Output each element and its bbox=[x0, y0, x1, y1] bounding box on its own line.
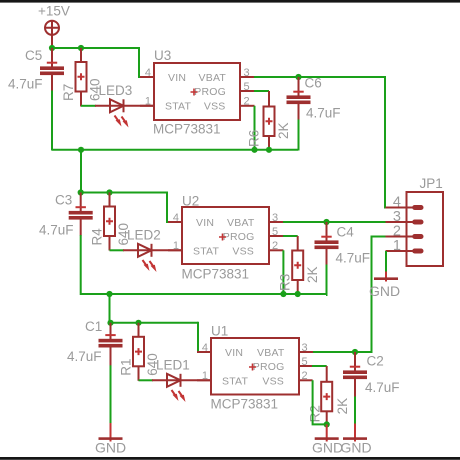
wire to U3 pin 4 bbox=[139, 47, 141, 77]
svg-text:LED1: LED1 bbox=[156, 358, 190, 373]
node junction +15V/C5 bbox=[49, 45, 55, 51]
LED3 bbox=[95, 83, 154, 128]
svg-text:VBAT: VBAT bbox=[257, 347, 285, 359]
svg-text:VIN: VIN bbox=[225, 347, 243, 359]
wire C3 bottom bbox=[81, 235, 110, 294]
ground below JP1 pin1 bbox=[369, 272, 400, 299]
svg-text:R7: R7 bbox=[61, 84, 76, 101]
node junction R7 top bbox=[78, 45, 84, 51]
svg-text:2: 2 bbox=[244, 96, 250, 108]
svg-text:VSS: VSS bbox=[262, 375, 284, 387]
svg-text:3: 3 bbox=[302, 342, 308, 354]
svg-text:R6: R6 bbox=[247, 130, 262, 147]
ground below C2 bbox=[340, 424, 371, 456]
svg-text:VIN: VIN bbox=[196, 217, 214, 229]
svg-text:1: 1 bbox=[173, 240, 179, 252]
ground below R2 bbox=[312, 424, 343, 455]
node junction C6 bbox=[295, 74, 301, 80]
svg-text:MCP73831: MCP73831 bbox=[211, 396, 279, 411]
capacitor C2 4.7uF bbox=[343, 352, 400, 397]
svg-text:STAT: STAT bbox=[165, 100, 191, 112]
LED2 bbox=[123, 228, 182, 273]
wire U1 VIN rail bbox=[111, 322, 199, 324]
op-amp U1 MCP73831 bbox=[197, 324, 313, 412]
svg-text:PROG: PROG bbox=[253, 361, 285, 373]
svg-text:STAT: STAT bbox=[222, 375, 248, 387]
svg-text:R2: R2 bbox=[308, 405, 323, 422]
capacitor C6 4.7uF bbox=[287, 76, 341, 121]
svg-text:2K: 2K bbox=[335, 398, 350, 415]
svg-text:VBAT: VBAT bbox=[227, 217, 255, 229]
svg-text:4.7uF: 4.7uF bbox=[365, 380, 400, 395]
resistor R1 640 bbox=[119, 323, 161, 381]
svg-text:LED3: LED3 bbox=[99, 83, 133, 98]
svg-text:C6: C6 bbox=[305, 76, 322, 91]
node junction R6/rail bbox=[266, 147, 272, 153]
svg-text:STAT: STAT bbox=[193, 245, 219, 257]
wire R7 to LED3 bbox=[81, 105, 96, 107]
wire JP1 pin1 to ground bbox=[385, 251, 387, 272]
wire U3 VSS rail bbox=[52, 149, 298, 151]
svg-text:R1: R1 bbox=[119, 359, 134, 376]
resistor R4 640 bbox=[90, 193, 132, 251]
wire C2 bottom bbox=[354, 397, 356, 424]
svg-text:GND: GND bbox=[340, 439, 371, 455]
node junction R4 top bbox=[106, 189, 112, 195]
wire to U1 pin 4 bbox=[198, 322, 200, 352]
svg-text:5: 5 bbox=[244, 81, 250, 93]
svg-text:4: 4 bbox=[202, 342, 208, 354]
node junction R1 top bbox=[135, 320, 141, 326]
wire U1 pin5 bbox=[312, 365, 327, 367]
svg-text:GND: GND bbox=[95, 439, 126, 455]
wire C5 bottom bbox=[51, 91, 53, 151]
svg-text:5: 5 bbox=[302, 356, 308, 368]
capacitor C3 4.7uF bbox=[39, 193, 93, 238]
svg-text:U2: U2 bbox=[182, 194, 199, 209]
svg-text:GND: GND bbox=[312, 439, 343, 455]
wire R1 to LED1 bbox=[139, 379, 154, 381]
svg-text:VSS: VSS bbox=[232, 245, 254, 257]
wire U1 pin2 down to R2 foot bbox=[313, 380, 327, 424]
node junction rail drop to U1 bbox=[106, 291, 112, 297]
node junction R3/rail bbox=[295, 291, 301, 297]
svg-text:C5: C5 bbox=[25, 48, 42, 63]
svg-text:VBAT: VBAT bbox=[199, 72, 227, 84]
resistor R6 2K bbox=[247, 91, 292, 150]
svg-text:R4: R4 bbox=[90, 228, 105, 246]
node junction C2 bbox=[352, 349, 358, 355]
bottom window border bar bbox=[0, 457, 460, 460]
wire U2 VSS rail bbox=[81, 293, 327, 295]
svg-text:MCP73831: MCP73831 bbox=[182, 266, 250, 281]
svg-text:2: 2 bbox=[272, 240, 278, 252]
wire U3 pin2 down bbox=[254, 106, 256, 151]
svg-text:JP1: JP1 bbox=[420, 176, 443, 191]
svg-text:4.7uF: 4.7uF bbox=[306, 106, 341, 121]
node junction C4 bbox=[323, 219, 329, 225]
svg-text:R3: R3 bbox=[278, 274, 293, 291]
svg-text:C4: C4 bbox=[337, 225, 355, 240]
node junction R2/GND bbox=[324, 421, 330, 427]
LED1 bbox=[152, 358, 211, 403]
wire U2 VIN rail bbox=[81, 192, 167, 194]
svg-text:4: 4 bbox=[145, 67, 151, 79]
wire R4 to LED2 bbox=[110, 249, 125, 251]
svg-text:3: 3 bbox=[244, 67, 250, 79]
svg-text:C1: C1 bbox=[85, 319, 102, 334]
ground below C1 bbox=[95, 423, 126, 455]
wire C1 bottom bbox=[110, 365, 112, 423]
op-amp U3 MCP73831 bbox=[140, 48, 255, 137]
svg-text:1: 1 bbox=[145, 96, 151, 108]
resistor R2 2K bbox=[308, 366, 351, 424]
svg-text:2K: 2K bbox=[276, 122, 291, 139]
capacitor C4 4.7uF bbox=[315, 222, 371, 266]
svg-text:4.7uF: 4.7uF bbox=[8, 77, 43, 92]
svg-text:+15V: +15V bbox=[38, 4, 70, 19]
wire U3 pin3 to JP1 pin4 bbox=[254, 77, 392, 208]
top window border bar bbox=[0, 0, 460, 3]
svg-text:GND: GND bbox=[369, 283, 400, 299]
resistor R3 2K bbox=[278, 236, 321, 294]
svg-text:4.7uF: 4.7uF bbox=[39, 223, 74, 238]
capacitor C5 4.7uF bbox=[8, 48, 64, 92]
svg-text:PROG: PROG bbox=[223, 231, 255, 243]
node junction pin2/rail bbox=[280, 291, 286, 297]
svg-text:VSS: VSS bbox=[204, 100, 226, 112]
wire C4 bottom bbox=[325, 265, 328, 296]
svg-text:4.7uF: 4.7uF bbox=[336, 251, 371, 266]
svg-text:1: 1 bbox=[202, 370, 208, 382]
node junction C3 bbox=[78, 189, 84, 195]
svg-text:2K: 2K bbox=[305, 266, 320, 283]
wire U2 pin3 to JP1 pin3 bbox=[283, 221, 392, 223]
wire U2 pin5 bbox=[283, 235, 298, 237]
svg-text:3: 3 bbox=[272, 212, 278, 224]
svg-text:4: 4 bbox=[173, 212, 179, 224]
svg-text:VIN: VIN bbox=[168, 72, 186, 84]
svg-text:LED2: LED2 bbox=[127, 228, 161, 243]
wire C6 bottom bbox=[298, 120, 300, 151]
svg-text:MCP73831: MCP73831 bbox=[153, 122, 221, 137]
node junction rail drop bbox=[78, 147, 84, 153]
node junction pin2/rail bbox=[251, 147, 257, 153]
wire to U2 pin 4 bbox=[167, 192, 169, 223]
node junction C1 bbox=[107, 320, 113, 326]
svg-text:C2: C2 bbox=[367, 354, 384, 369]
capacitor C1 4.7uF bbox=[67, 319, 123, 366]
svg-text:U3: U3 bbox=[154, 48, 171, 63]
svg-text:U1: U1 bbox=[211, 324, 228, 339]
wire U1 pin3 to riser bbox=[313, 237, 392, 353]
wire U2 pin2 down bbox=[282, 250, 284, 294]
supply +15V symbol P1 bbox=[38, 4, 70, 47]
svg-text:C3: C3 bbox=[55, 193, 72, 208]
svg-text:1: 1 bbox=[393, 238, 401, 254]
wire drop to U2 rail bbox=[80, 150, 82, 193]
wire +15V rail bbox=[52, 47, 139, 49]
svg-text:4.7uF: 4.7uF bbox=[67, 349, 102, 364]
wire U3 pin5 bbox=[254, 90, 269, 92]
svg-text:2: 2 bbox=[302, 370, 308, 382]
svg-text:PROG: PROG bbox=[194, 86, 226, 98]
wire drop to U1 rail bbox=[109, 294, 111, 323]
svg-text:5: 5 bbox=[272, 226, 278, 238]
op-amp U2 MCP73831 bbox=[168, 194, 283, 282]
resistor R7 640 bbox=[61, 48, 103, 107]
